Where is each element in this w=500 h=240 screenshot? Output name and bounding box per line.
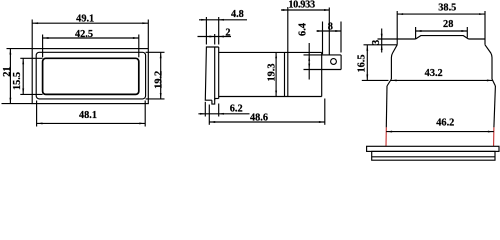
shoulder slant left xyxy=(391,45,397,79)
bezel flange front rectangle xyxy=(367,146,499,151)
dimension 28 extension line left xyxy=(415,27,417,39)
dimension 48.1 line xyxy=(37,122,146,124)
svg-text:4.8: 4.8 xyxy=(231,9,244,20)
dimension 19.3 label xyxy=(266,63,277,81)
dimension 16.5 extension line top xyxy=(364,44,398,46)
dimension 15.5 label xyxy=(12,72,23,90)
svg-text:38.5: 38.5 xyxy=(438,2,456,13)
dimension 21 extension line top xyxy=(7,48,33,50)
bezel plate inner edge xyxy=(214,47,216,100)
bezel flange inner line xyxy=(372,156,495,158)
dimension 6.2 extension line left xyxy=(204,102,206,117)
dimension 38.5 line xyxy=(397,13,485,15)
dimension 21 line xyxy=(9,49,11,104)
dimension 28 label xyxy=(443,19,453,30)
dimension 8 line xyxy=(317,30,342,32)
dimension 4.8 line xyxy=(199,19,247,21)
terminal tab end edge xyxy=(340,55,342,70)
meter body bottom edge xyxy=(219,96,322,98)
dimension 6.4 label xyxy=(298,23,309,36)
dimension 15.5 extension line bottom xyxy=(20,93,42,95)
upper ledge right xyxy=(469,38,486,40)
lower case side right xyxy=(494,86,496,127)
dimension 19.2 line xyxy=(160,52,162,99)
svg-text:48.1: 48.1 xyxy=(79,110,97,121)
svg-text:49.1: 49.1 xyxy=(76,14,94,25)
svg-text:6.2: 6.2 xyxy=(230,104,243,115)
dimension 19.3 line xyxy=(275,52,277,96)
dimension 42.5 extension line right xyxy=(138,35,140,58)
display window rounded rectangle xyxy=(43,58,139,94)
step edge left xyxy=(396,39,398,45)
dimension 16.5 extension line bottom xyxy=(362,79,389,81)
dimension 49.1 line xyxy=(32,22,148,24)
dimension 2 extension line left xyxy=(214,34,216,45)
dimension 48.6 label xyxy=(250,112,268,123)
svg-text:28: 28 xyxy=(443,19,453,30)
outer bezel rectangle (front view) xyxy=(32,49,148,104)
dimension 46.2 line xyxy=(386,131,494,133)
svg-text:6.4: 6.4 xyxy=(298,23,309,36)
dimension 19.2 extension line top xyxy=(146,51,165,53)
meter body rear face xyxy=(321,52,323,96)
dimension 6.2 extension line right xyxy=(218,104,220,117)
dimension 19.2 label xyxy=(153,71,164,89)
dimension 10.933 extension line right xyxy=(328,8,330,55)
dimension 3 line xyxy=(381,29,383,53)
svg-text:43.2: 43.2 xyxy=(425,68,443,79)
dimension 16.5 line xyxy=(366,45,368,81)
dimension 8 extension line left xyxy=(322,22,324,55)
dimension 49.1 extension line left xyxy=(31,20,33,49)
dimension 3 tick top xyxy=(378,38,398,40)
bezel frame rounded rectangle xyxy=(36,52,145,99)
case side jog right xyxy=(492,79,495,86)
svg-text:2: 2 xyxy=(225,27,230,38)
dimension 2 label xyxy=(225,27,230,38)
dimension 3 label xyxy=(371,40,382,45)
upper ledge left xyxy=(397,38,415,40)
dimension 38.5 extension line right xyxy=(484,11,486,39)
dimension 8 label xyxy=(328,21,333,32)
dimension 6.2 line xyxy=(198,113,249,115)
bezel plate front face edge xyxy=(218,47,220,99)
dimension 19.2 extension line bottom xyxy=(146,98,165,100)
lower case side left xyxy=(385,86,388,127)
dimension 8 extension line right xyxy=(340,22,342,53)
dimension 6.2 label xyxy=(230,104,243,115)
dimension 48.1 label xyxy=(79,110,97,121)
dimension 15.5 extension line top xyxy=(20,57,42,59)
dimension 46.2 label xyxy=(436,118,454,129)
svg-text:3: 3 xyxy=(371,40,382,45)
dimension 42.5 extension line left xyxy=(42,35,44,58)
red extension segment left xyxy=(385,127,387,146)
terminal tab top edge xyxy=(304,54,342,56)
svg-text:8: 8 xyxy=(328,21,333,32)
dimension 2 line xyxy=(198,36,232,38)
svg-text:19.3: 19.3 xyxy=(266,63,277,81)
dimension 28 line xyxy=(416,30,468,32)
svg-text:10.933: 10.933 xyxy=(288,0,315,11)
dimension 21 extension line bottom xyxy=(2,103,33,105)
bezel plate side outline xyxy=(205,47,218,100)
svg-text:42.5: 42.5 xyxy=(75,29,93,40)
svg-text:48.6: 48.6 xyxy=(250,112,268,123)
dimension 38.5 extension line left xyxy=(396,11,398,39)
terminal hole xyxy=(331,59,337,65)
case top face with chamfered corners xyxy=(416,36,469,39)
dimension 10.933 line xyxy=(281,9,329,11)
dimension 43.2 label xyxy=(425,68,443,79)
dimension 43.2 line xyxy=(391,79,493,81)
dimension 49.1 label xyxy=(76,14,94,25)
bezel flange lower rectangle xyxy=(372,151,495,160)
dimension 48.6 extension line right xyxy=(324,99,326,125)
dimension 48.6 line xyxy=(209,121,324,123)
svg-text:19.2: 19.2 xyxy=(153,71,164,89)
meter body top edge xyxy=(219,51,322,53)
dimension 48.1 extension line left xyxy=(36,101,38,127)
dimension 28 extension line right xyxy=(466,27,468,38)
bezel plate lower right edge xyxy=(215,98,219,100)
body seam line 2 with 10.933 extension xyxy=(287,7,289,97)
dimension 2 extension line right shared xyxy=(218,17,220,45)
terminal tab bottom edge xyxy=(304,69,342,71)
body seam line 1 xyxy=(284,52,286,96)
svg-text:15.5: 15.5 xyxy=(12,72,23,90)
red extension segment right xyxy=(493,127,495,146)
mounting foot below plate xyxy=(212,99,215,105)
case side jog left xyxy=(387,79,391,86)
dimension 48.1 extension line right xyxy=(144,101,146,127)
dimension 16.5 label xyxy=(357,54,368,72)
dimension 42.5 line xyxy=(43,37,139,39)
dimension 48.6 extension line left xyxy=(208,105,210,125)
dimension 10.933 label xyxy=(288,0,315,11)
svg-text:16.5: 16.5 xyxy=(357,54,368,72)
dimension 49.1 extension line right xyxy=(147,20,149,49)
dimension 4.8 extension line left xyxy=(205,17,207,45)
dimension 15.5 line xyxy=(22,58,24,94)
dimension 42.5 label xyxy=(75,29,93,40)
dimension 38.5 label xyxy=(438,2,456,13)
svg-text:46.2: 46.2 xyxy=(436,118,454,129)
dimension 4.8 label xyxy=(231,9,244,20)
dimension 21 label xyxy=(2,66,13,76)
step edge right xyxy=(484,39,486,45)
shoulder slant right xyxy=(485,45,492,79)
dimension 6.4 line xyxy=(308,43,310,80)
